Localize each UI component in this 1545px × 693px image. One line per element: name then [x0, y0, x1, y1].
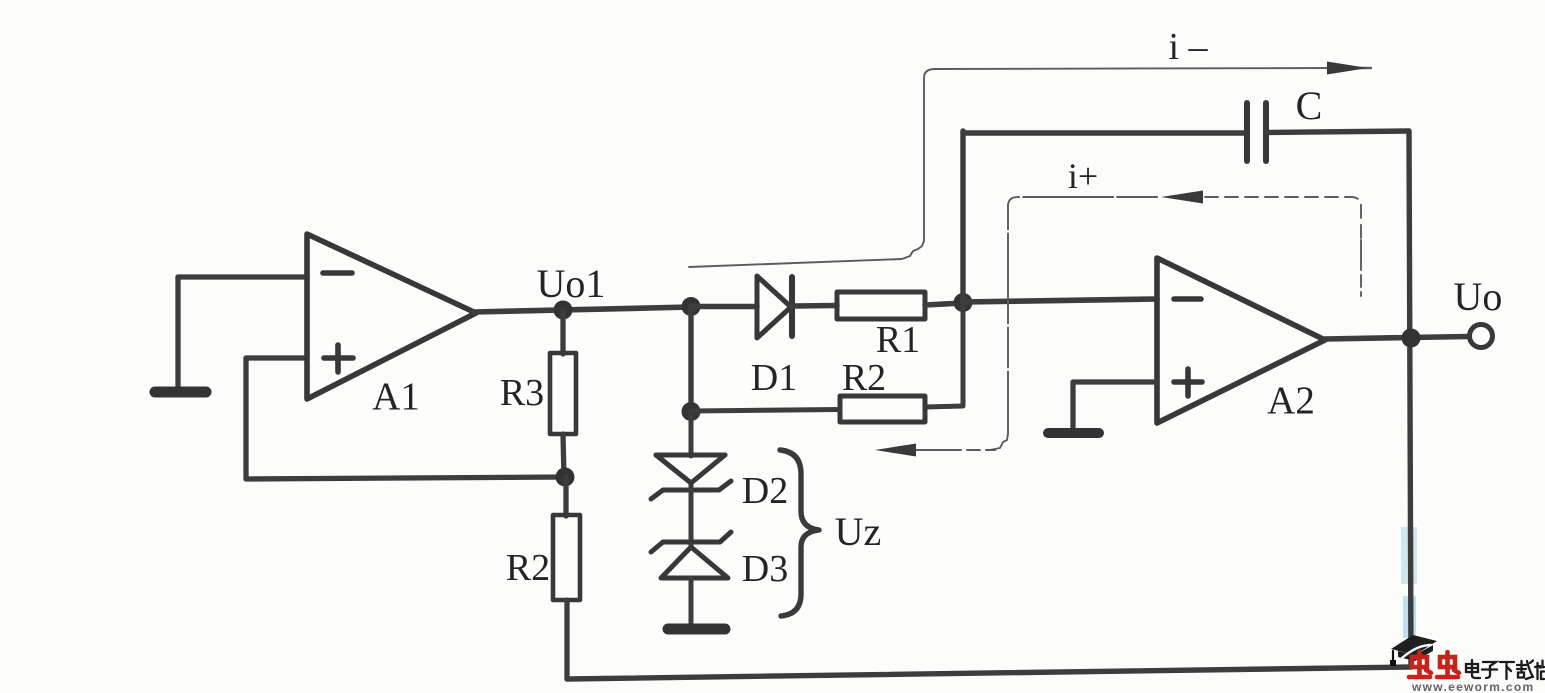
op-amp A2: [1157, 258, 1325, 423]
站: [1536, 663, 1538, 679]
arrowhead i+ (bottom, pointing left): [875, 444, 916, 457]
wire: node to A2 inverting input: [963, 299, 1157, 302]
wire: A1 inverting input: [178, 274, 307, 279]
node: R1 right / capacitor branch: [954, 293, 973, 312]
zener diode D2: [651, 455, 731, 499]
wire: A1 non-inverting input: [246, 355, 307, 360]
wire: lower junction to D2: [689, 412, 694, 456]
wire: feedback from R3/R2 node to A1 + input: [246, 477, 565, 479]
resistor R2 (horizontal): [840, 396, 925, 422]
wire: capacitor top left: [963, 130, 1245, 135]
子: [1483, 662, 1496, 666]
resistor R1: [837, 292, 925, 319]
电: [1466, 664, 1478, 672]
wire: vertical from A1 + input down to feedback: [243, 358, 248, 478]
zener diode D3: [651, 532, 731, 578]
ground (A2 non-inverting input): [1048, 428, 1099, 438]
wire: D3 to ground: [689, 578, 694, 626]
wire: between D2 and D3: [689, 490, 694, 542]
watermark logo: graduation cap: [1391, 635, 1437, 655]
wire: vertical junction to lower branch: [688, 307, 693, 412]
wire: bottom return: [567, 667, 1411, 679]
wire: A2 non-inverting input to ground: [1073, 382, 1157, 429]
node: A2 output / right rail: [1402, 329, 1421, 348]
ground (below D3): [668, 624, 725, 635]
arrowhead i+ (top, pointing left): [1161, 191, 1203, 204]
载: [1517, 664, 1527, 666]
current path i+ (thin flow loop): [912, 197, 1361, 450]
arrowhead i-: [1327, 62, 1368, 75]
wire: capacitor branch up: [960, 131, 965, 303]
wire: A1 output to junction: [474, 307, 691, 312]
wire: A2 output: [1325, 337, 1468, 340]
wire: right rail (C to bottom return): [1409, 131, 1411, 667]
blue highlighter streaks on right rail: [1401, 527, 1417, 584]
diode D1: [691, 304, 757, 310]
brace for Uz: [780, 450, 819, 616]
watermark logo: www.eeworm.com: [1412, 680, 1545, 693]
op-amp A1: [307, 234, 476, 399]
wire: left vertical to ground: [175, 277, 180, 389]
resistor R3: [560, 310, 565, 354]
resistor R2 (left vertical): [563, 477, 568, 516]
node: junction at Uo1 line / D1 branch: [682, 297, 701, 316]
下: [1500, 661, 1514, 663]
wire: node down to R2 (horizontal) right end: [925, 303, 963, 407]
node: R3 bottom / feedback junction: [556, 468, 575, 487]
node: lower junction (R2 branch / zener chain): [682, 402, 701, 421]
current path i- (thin flow line): [689, 68, 1371, 267]
capacitor C: [1244, 103, 1250, 161]
node Uo1: [554, 301, 573, 320]
terminal Uo: [1470, 325, 1493, 348]
ground (left, A1 inverting input): [155, 387, 206, 398]
